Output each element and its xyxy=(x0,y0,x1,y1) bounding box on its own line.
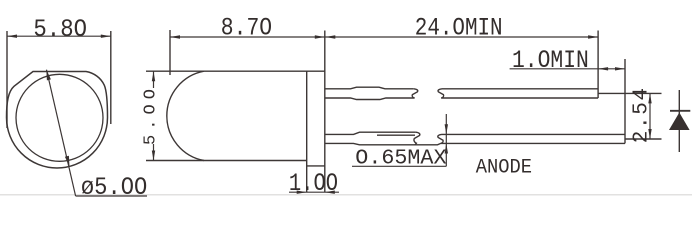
top lead lower edge with crimp xyxy=(325,98,415,100)
arrow 2.54 top xyxy=(648,93,651,103)
svg-text:O.65MAX: O.65MAX xyxy=(355,147,447,170)
arrow 1.00 left xyxy=(297,191,307,194)
dimension 1.0MIN line xyxy=(510,68,625,70)
arrow 0.65 up xyxy=(445,144,448,154)
dimension 8.70 line xyxy=(170,36,325,38)
top lead upper edge with crimp xyxy=(325,87,414,89)
arrow 2.54 bottom xyxy=(648,129,651,139)
top lead break right xyxy=(438,89,444,98)
arrow 5.80 left xyxy=(7,35,17,38)
arrow 5.80 right xyxy=(101,35,111,38)
arrow 1.00 right xyxy=(325,191,335,194)
bottom lead lower edge with crimp xyxy=(325,143,625,144)
dimension 0.65MAX vertical line xyxy=(445,114,447,166)
dimension 5.00 line vertical xyxy=(153,71,155,88)
leader arrow top xyxy=(46,69,51,80)
leader arrow bottom xyxy=(65,156,70,167)
arrow 1.0MIN left xyxy=(598,67,608,70)
dimension 8.70 extension left xyxy=(169,30,171,75)
svg-text:8.7O: 8.7O xyxy=(221,14,272,43)
svg-text:5.OO: 5.OO xyxy=(142,89,161,145)
dimension 5.80 line xyxy=(7,35,111,37)
dimension 5.80 extension line left xyxy=(6,31,8,128)
LED side view body top edge + 5.00 extension xyxy=(146,70,325,72)
svg-text:2.54: 2.54 xyxy=(631,88,654,143)
flange bottom edge xyxy=(307,165,325,167)
svg-text:1.OO: 1.OO xyxy=(289,169,338,198)
top lead upper edge right part xyxy=(442,88,598,90)
arrow 5.00 top xyxy=(152,71,155,81)
svg-text:ø5.OO: ø5.OO xyxy=(81,173,147,202)
diode symbol wire xyxy=(678,90,680,152)
LED side view dome arc xyxy=(167,71,204,160)
svg-text:1.OMIN: 1.OMIN xyxy=(512,46,589,75)
dimension 1.00 line xyxy=(289,191,339,193)
top lead lower edge right part xyxy=(441,97,598,99)
LED top view inner epoxy circle xyxy=(16,74,103,161)
dimension 2.54 extension bottom xyxy=(625,138,662,140)
bottom lead crimp inner line xyxy=(377,134,415,136)
LED side view body bottom edge + 5.00 extension xyxy=(146,160,307,162)
top lead tip + extension xyxy=(597,31,599,99)
flange right edge + extension xyxy=(324,31,326,193)
arrow 1.0MIN right xyxy=(615,67,625,70)
dimension 2.54 line xyxy=(649,93,651,139)
arrow 24.0MIN right xyxy=(588,35,598,38)
diode triangle xyxy=(669,113,690,131)
bottom lead break left xyxy=(414,132,420,145)
bottom lead tip + extension xyxy=(624,59,626,143)
bottom lead upper edge right part xyxy=(442,133,626,135)
top lead break left xyxy=(412,89,418,98)
flange left edge xyxy=(306,71,308,192)
arrow 24.0MIN left xyxy=(325,35,335,38)
dimension 24.0MIN line xyxy=(325,36,598,38)
diameter leader line xyxy=(47,70,76,196)
svg-text:5.8O: 5.8O xyxy=(33,15,87,44)
svg-text:24.OMIN: 24.OMIN xyxy=(415,14,503,43)
bottom rule xyxy=(0,194,692,196)
leader underline xyxy=(76,195,147,197)
arrow 8.70 left xyxy=(170,35,180,38)
0.65MAX underline xyxy=(352,165,446,167)
arrow 8.70 right xyxy=(315,35,325,38)
arrow 0.65 down xyxy=(445,124,448,134)
dimension 2.54 extension top xyxy=(598,92,661,94)
diode cathode bar xyxy=(670,110,690,112)
arrow 5.00 bottom xyxy=(152,151,155,161)
dimension 5.80 extension line right xyxy=(110,31,112,124)
bottom lead break right xyxy=(438,134,443,143)
bottom lead upper edge with crimp xyxy=(325,132,416,134)
LED top view outer flange outline xyxy=(7,72,108,169)
svg-text:ANODE: ANODE xyxy=(476,157,532,180)
